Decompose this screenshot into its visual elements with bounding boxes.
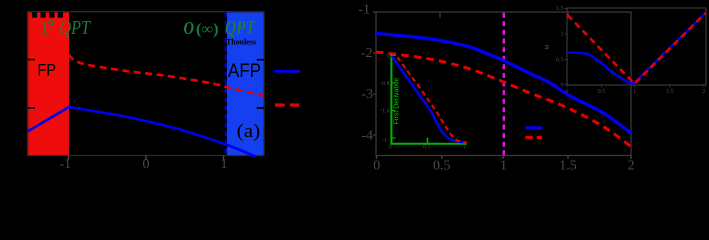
AFP boundary blue dashed vertical line <box>225 12 227 155</box>
inset blue magnetization curve <box>567 14 705 84</box>
bottom axis outward ticks <box>69 156 224 160</box>
svg-text:0.5: 0.5 <box>433 159 451 174</box>
svg-text:2: 2 <box>628 159 635 174</box>
svg-text:1.5: 1.5 <box>666 89 674 95</box>
svg-text:O: O <box>184 18 195 38</box>
svg-text:1: 1 <box>561 32 564 38</box>
green inset left spine inward ticks <box>392 56 395 139</box>
svg-text:QPT: QPT <box>60 18 91 39</box>
green inset bottom spine <box>390 143 466 145</box>
svg-text:(∞): (∞) <box>196 21 219 38</box>
svg-text:0: 0 <box>373 159 380 174</box>
svg-text:1: 1 <box>221 157 228 172</box>
magenta dashed critical line at x=1 <box>503 13 505 156</box>
green inset left spine <box>390 55 392 144</box>
green inset mid upward tick <box>427 138 429 144</box>
inset blue first-derivative curve <box>392 56 466 143</box>
main red dashed energy curve <box>376 52 631 147</box>
svg-text:-0.8: -0.8 <box>380 81 390 87</box>
svg-text:1: 1 <box>500 159 507 174</box>
left spine inward y-ticks (black over red) <box>28 59 35 61</box>
svg-text:1.5: 1.5 <box>559 159 577 174</box>
red dashed curve <box>69 55 265 97</box>
svg-text:1: 1 <box>463 145 466 151</box>
blue solid order-parameter curve <box>28 107 256 157</box>
inset red dashed V curve <box>568 13 706 84</box>
svg-text:0: 0 <box>389 145 392 151</box>
inset red dashed first-derivative curve <box>398 57 467 143</box>
svg-text:0.5: 0.5 <box>556 58 564 64</box>
inset x ticks <box>567 85 704 87</box>
legend blue solid line sample <box>274 70 300 73</box>
svg-text:0: 0 <box>387 54 390 60</box>
svg-text:0: 0 <box>566 89 569 95</box>
svg-text:0: 0 <box>143 157 150 172</box>
svg-text:-2: -2 <box>361 46 373 61</box>
top-right inset frame <box>567 8 706 85</box>
left panel frame <box>28 12 265 156</box>
inset y ticks <box>565 9 568 85</box>
main blue solid energy curve <box>376 34 631 134</box>
svg-text:-3: -3 <box>361 87 373 102</box>
svg-text:-1: -1 <box>358 2 370 17</box>
svg-text:-1: -1 <box>382 138 387 144</box>
svg-text:FP: FP <box>38 61 57 80</box>
svg-text:0: 0 <box>561 83 564 89</box>
svg-text:-1.6: -1.6 <box>380 109 390 115</box>
svg-text:AFP: AFP <box>228 60 261 82</box>
svg-text:0.5: 0.5 <box>423 145 431 151</box>
right panel legend red dashed sample <box>526 136 543 139</box>
svg-text:-1: -1 <box>59 157 71 172</box>
svg-text:1.5: 1.5 <box>556 6 564 12</box>
top spine minor tick dashes over red region <box>32 12 63 18</box>
svg-text:-4: -4 <box>361 129 373 144</box>
legend red dashed line sample <box>275 103 300 106</box>
svg-text:st: st <box>47 18 55 29</box>
svg-text:QPT: QPT <box>225 18 256 39</box>
svg-text:2: 2 <box>703 89 706 95</box>
x-axis outward ticks <box>377 156 632 159</box>
svg-text:1: 1 <box>633 89 636 95</box>
svg-text:0.5: 0.5 <box>598 89 606 95</box>
svg-text:First Derivative: First Derivative <box>394 78 401 125</box>
svg-text:Thouless: Thouless <box>226 38 256 47</box>
AFP blue region fill <box>227 12 264 155</box>
right panel legend blue line sample <box>526 126 543 129</box>
top spine inward minor ticks <box>440 13 568 18</box>
svg-text:M: M <box>545 44 551 50</box>
FP red region fill <box>28 12 69 155</box>
y-axis outward ticks <box>373 12 376 135</box>
right panel frame <box>376 12 631 156</box>
svg-text:(a): (a) <box>237 122 261 142</box>
right spine inward y-ticks (black over blue) <box>257 59 264 61</box>
